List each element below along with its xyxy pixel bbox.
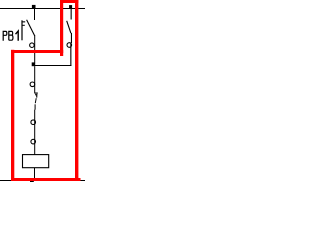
relay contact lower terminal circle (31, 120, 36, 125)
coil (relay coil rectangle) (23, 155, 49, 168)
wire: bottom return rail (0, 180, 85, 181)
pushbutton PB1 actuator tick 2 (22, 25, 25, 26)
pushbutton PB1 actuator stem (21, 20, 22, 40)
wire: junction stub at bottom rail (30, 181, 34, 182)
relay contact blade hook top (35, 94, 37, 95)
node C (junction dot) (32, 62, 36, 66)
pushbutton PB1 terminal circle (30, 43, 35, 48)
wire: top supply rail (0, 8, 85, 9)
wire: right contact lower stem (71, 33, 72, 43)
wire: energized highlight, left vertical (red) (11, 50, 14, 181)
wire: relay contact blade end down to coil (34, 110, 35, 155)
pushbutton PB1 label: letter P (3, 31, 7, 40)
contact (right branch) upper stub wire (71, 9, 72, 20)
contact (right branch) terminal circle (67, 43, 72, 48)
relay contact upper terminal circle (30, 82, 35, 87)
node A (junction dot, PB1 branch) (32, 5, 36, 9)
pushbutton PB1 label: letter B (9, 31, 13, 40)
wire: right contact down to horizontal run (70, 43, 71, 67)
relay contact blade lower segment (35, 104, 36, 109)
node B (junction dot, right branch) (69, 5, 72, 9)
relay contact blade middle segment (34, 98, 37, 103)
relay contact seat tick (35, 93, 38, 94)
pushbutton PB1 label: digit 1 (16, 31, 19, 41)
wire: energized highlight, left bracket vertical (red) (60, 0, 63, 56)
pushbutton PB1 actuator tick 1 (22, 21, 26, 22)
wire: energized highlight, bottom bar (red) (11, 178, 81, 181)
contact (right branch) blade (NO contact, open) (67, 21, 71, 33)
pushbutton PB1 blade (NO contact, open) (27, 20, 35, 36)
relay contact blade hook vertical (36, 94, 37, 97)
wire: energized highlight, right vertical (red) (75, 0, 78, 181)
pushbutton PB1 upper stub wire (34, 9, 35, 20)
wire: energized highlight, middle horizontal (red) (11, 50, 63, 53)
wire: node C to right branch (horizontal run) (34, 65, 71, 66)
coil pin circle (31, 139, 36, 144)
wire: energized highlight, top bar (red) (60, 0, 78, 3)
wire: node C down to relay contact seat (34, 66, 35, 93)
wire: coil to bottom rail (34, 168, 35, 179)
wire: PB1 lower stem down to node C (34, 35, 35, 63)
